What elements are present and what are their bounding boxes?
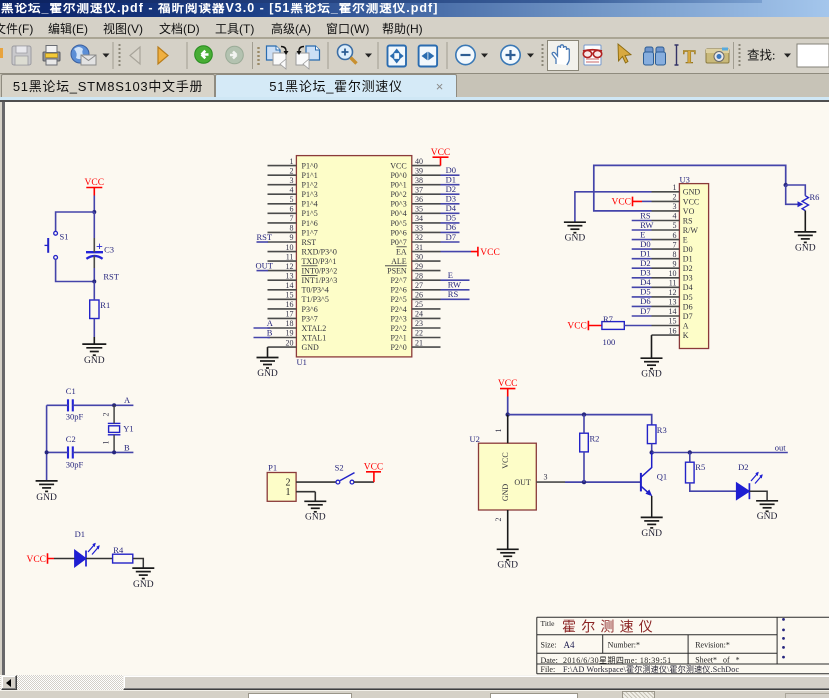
svg-text:Number:*: Number:* [608, 640, 640, 649]
pin 33 U1 (P0^6) [390, 224, 440, 238]
svg-text:Y1: Y1 [123, 424, 133, 434]
wire pin 20 to ground [267, 347, 269, 357]
svg-text:VCC: VCC [567, 322, 587, 332]
pin 11 U1 (TXD/P3^1) [268, 252, 337, 266]
svg-text:D2: D2 [683, 264, 693, 273]
svg-text:GND: GND [501, 484, 510, 502]
back disabled [158, 47, 168, 64]
menu bar [0, 17, 829, 37]
pin 22 U1 (P2^1) [390, 329, 440, 343]
wire C1 right to node A [73, 404, 134, 406]
wire net RW to U3 pin 5 [632, 220, 654, 230]
svg-text:VCC: VCC [683, 197, 699, 206]
pin 9 U1 (RST) [268, 233, 317, 247]
svg-text:P1^4: P1^4 [302, 200, 318, 209]
svg-text:D1: D1 [683, 255, 693, 264]
svg-text:27: 27 [415, 281, 423, 290]
svg-text:1: 1 [290, 157, 294, 166]
pin 6 U3 (E) [652, 231, 688, 245]
svg-text:31: 31 [415, 243, 423, 252]
svg-text:E: E [683, 236, 688, 245]
pin 12 U1 (INT0/P3^2) [268, 262, 338, 276]
svg-text:XTAL1: XTAL1 [302, 333, 327, 342]
svg-text:INT0/P3^2: INT0/P3^2 [302, 267, 338, 276]
svg-text:P1^5: P1^5 [302, 209, 318, 218]
wire net RW to pin 27 [441, 280, 470, 290]
wire net D7 to U3 pin 14 [632, 306, 652, 316]
email/globe icon [71, 45, 89, 63]
svg-text:Title: Title [541, 619, 556, 628]
lcd connector U3 body [679, 184, 708, 349]
pin 19 U1 (XTAL1) [268, 329, 327, 343]
text select tool [675, 45, 679, 65]
svg-text:39: 39 [415, 166, 423, 175]
wire A to Y1 / Y1 to B [113, 405, 115, 423]
svg-text:14: 14 [286, 281, 294, 290]
svg-text:C3: C3 [104, 245, 114, 255]
pin 4 U3 (RS) [652, 212, 693, 226]
svg-text:A4: A4 [564, 640, 575, 650]
wire junction to R6 wiper arrow [786, 185, 798, 204]
pin 3 U2 (OUT) [514, 472, 565, 487]
svg-text:26: 26 [415, 291, 423, 300]
svg-text:B: B [267, 327, 273, 337]
pin 1 U1 (P1^0) [268, 157, 318, 171]
wire S2 to VCC corner [354, 481, 374, 483]
svg-text:18: 18 [286, 319, 294, 328]
svg-text:10: 10 [286, 243, 294, 252]
hall sensor U2 body [479, 443, 537, 510]
svg-text:16: 16 [286, 300, 294, 309]
pin 13 U3 (D6) [652, 298, 693, 312]
zoom out [456, 45, 475, 64]
resistor R1 [90, 300, 99, 319]
svg-text:2: 2 [494, 518, 503, 522]
pin 2 U2 (GND) [494, 484, 510, 550]
pin 10 U3 (D3) [652, 269, 693, 283]
pin 11 U3 (D4) [652, 279, 693, 293]
pin 40 U1 (VCC) [390, 157, 440, 171]
svg-text:D3: D3 [683, 274, 693, 283]
pin 3 U1 (P1^2) [268, 176, 318, 190]
svg-text:24: 24 [415, 310, 423, 319]
wire VCC to D1 anode [54, 558, 75, 560]
node B junction [112, 450, 116, 454]
resistor R4 [113, 554, 133, 563]
wire left rail to GND [46, 405, 48, 481]
svg-text:查找:: 查找: [747, 49, 775, 63]
wire C2 right to node B [73, 451, 134, 453]
svg-text:out: out [775, 443, 787, 453]
crystal Y1 [108, 423, 121, 434]
pin 37 U1 (P0^2) [390, 185, 440, 199]
svg-text:P0^4: P0^4 [390, 209, 406, 218]
svg-text:15: 15 [669, 317, 677, 326]
capacitor C3 [86, 252, 103, 259]
svg-text:GND: GND [36, 493, 57, 503]
svg-text:GND: GND [641, 370, 662, 380]
svg-text:GND: GND [133, 580, 154, 590]
wire net D5 to U3 pin 12 [632, 287, 652, 297]
pin 13 U1 (INT1/P3^3) [268, 271, 338, 285]
svg-text:GND: GND [257, 369, 278, 379]
resistor R7 [602, 322, 624, 330]
pin 31 U1 (EA) [396, 243, 440, 257]
svg-text:RS: RS [640, 210, 651, 220]
svg-text:D1: D1 [75, 529, 85, 539]
svg-text:D4: D4 [640, 277, 651, 287]
wire net D1 to U3 pin 8 [632, 249, 652, 259]
pin 9 U3 (D2) [652, 259, 693, 273]
svg-text:P0^1: P0^1 [390, 181, 406, 190]
svg-text:R2: R2 [590, 434, 600, 444]
resistor R3 [647, 425, 656, 444]
wire D1 cathode to R4 [86, 558, 113, 560]
title block revision dots [782, 618, 785, 658]
pin 8 U1 (P1^7) [268, 224, 318, 238]
wire top rail to R3 [508, 415, 652, 425]
svg-text:8: 8 [290, 224, 294, 233]
svg-text:P2^5: P2^5 [390, 295, 406, 304]
wire net D4 to U3 pin 11 [632, 277, 652, 287]
wire R4 to GND [133, 559, 144, 569]
pin 5 U3 (R/W) [652, 221, 699, 235]
power port VCC (reset circuit) [85, 178, 105, 196]
svg-text:VCC: VCC [498, 379, 518, 389]
svg-text:30: 30 [415, 252, 423, 261]
svg-text:P1^7: P1^7 [302, 228, 318, 237]
node RST junction [92, 280, 96, 284]
mcu U1 body [296, 156, 411, 357]
svg-text:OUT: OUT [256, 260, 274, 270]
resistor R2 [580, 433, 589, 452]
pin 23 U1 (P2^2) [390, 319, 440, 333]
wire U2 OUT to Q1 base [565, 481, 641, 483]
ground (U3 pin 16) [641, 358, 663, 369]
svg-text:RW: RW [448, 280, 461, 290]
svg-text:16: 16 [669, 326, 677, 335]
svg-text:A: A [683, 321, 689, 330]
svg-text:D2: D2 [640, 258, 650, 268]
svg-text:Q1: Q1 [657, 472, 667, 482]
svg-text:14: 14 [669, 307, 677, 316]
wire P1 pin 1 to ground [314, 492, 316, 502]
capacitor C2 [68, 446, 73, 458]
prev view page [267, 46, 281, 60]
svg-text:D7: D7 [446, 232, 456, 242]
wire U3 pin 3 VO to R6 wiper [594, 165, 786, 211]
ground (U2 pin 2) [497, 549, 519, 560]
svg-text:P2^4: P2^4 [390, 305, 406, 314]
zoom lens [338, 45, 353, 60]
svg-text:11: 11 [286, 252, 294, 261]
svg-text:34: 34 [415, 214, 423, 223]
node junction VCC/S1/C3 [92, 210, 96, 214]
svg-text:ALE: ALE [391, 257, 407, 266]
node junction U2 pin1/rail [506, 412, 510, 416]
svg-text:R4: R4 [113, 545, 124, 555]
svg-text:F:\AD Workspace\霍尔测速仪\霍尔测速仪.Sc: F:\AD Workspace\霍尔测速仪\霍尔测速仪.SchDoc [563, 664, 739, 674]
pin 27 U1 (P2^6) [390, 281, 440, 295]
svg-text:P0^3: P0^3 [390, 200, 406, 209]
svg-text:2: 2 [673, 193, 677, 202]
wire net E to pin 28 [441, 270, 470, 280]
power port VCC (R7) [567, 321, 602, 332]
svg-text:Size:: Size: [541, 640, 557, 649]
svg-text:RS: RS [683, 216, 693, 225]
pin 16 U3 (K) [652, 326, 689, 340]
svg-text:RS: RS [448, 289, 459, 299]
power port VCC (U1 pin 40) [431, 148, 451, 166]
window title bar [0, 0, 829, 17]
svg-text:D2: D2 [446, 184, 456, 194]
svg-text:P1^2: P1^2 [302, 181, 318, 190]
pin 15 U1 (T1/P3^5) [268, 291, 329, 305]
svg-text:D5: D5 [446, 213, 456, 223]
node junction R5/out [688, 450, 692, 454]
node junction R6 wiper [784, 183, 788, 187]
pin 12 U3 (D5) [652, 288, 693, 302]
svg-text:GND: GND [795, 243, 816, 253]
wire rail to R2 / R2 to OUT [583, 415, 585, 434]
svg-text:GND: GND [497, 561, 518, 571]
wire net RST to pin 9 [257, 232, 273, 242]
svg-text:A: A [124, 395, 131, 405]
svg-text:7: 7 [290, 214, 294, 223]
pin 36 U1 (P0^3) [390, 195, 440, 209]
svg-text:XTAL2: XTAL2 [302, 324, 327, 333]
svg-text:T1/P3^5: T1/P3^5 [302, 295, 329, 304]
wire net D0 to pin 39 [441, 165, 460, 175]
ground (U3 pin 1) [564, 222, 586, 233]
svg-text:RST: RST [257, 232, 273, 242]
svg-text:10: 10 [669, 269, 677, 278]
svg-text:2: 2 [290, 166, 294, 175]
svg-text:R/W: R/W [683, 226, 699, 235]
svg-text:100: 100 [603, 337, 616, 347]
potentiometer R6 [798, 196, 809, 211]
zoom in [501, 45, 520, 64]
wire VCC port to U3 pin 2 [642, 200, 652, 202]
pin 17 U1 (P3^7) [268, 310, 318, 324]
ground (U1 pin 20) [257, 358, 279, 369]
svg-text:VCC: VCC [390, 162, 406, 171]
node junction collector/out [650, 450, 654, 454]
svg-text:VCC: VCC [85, 178, 105, 188]
wire VCC to rail junction [507, 397, 509, 415]
wire junction to C3 / C3 to RST node [93, 212, 95, 238]
svg-text:GND: GND [84, 356, 105, 366]
ground (R6) [794, 232, 816, 243]
pin 35 U1 (P0^4) [390, 205, 440, 219]
wire C2 left to rail [47, 451, 69, 453]
transistor Q1 [641, 453, 652, 518]
wire net D4 to pin 35 [441, 203, 460, 213]
svg-text:VCC: VCC [480, 248, 500, 258]
svg-text:28: 28 [415, 271, 423, 280]
svg-text:D5: D5 [683, 293, 693, 302]
pin 7 U3 (D0) [652, 240, 693, 254]
wire net D0 to U3 pin 7 [632, 239, 652, 249]
svg-text:P1^3: P1^3 [302, 190, 318, 199]
svg-text:15: 15 [286, 291, 294, 300]
ground (D1 circuit) [132, 568, 154, 579]
svg-text:E: E [448, 270, 453, 280]
svg-text:6: 6 [290, 205, 294, 214]
horizontal scrollbar [0, 675, 829, 690]
svg-text:P2^2: P2^2 [390, 324, 406, 333]
pin 29 U1 (PSEN) [385, 262, 441, 276]
pin 25 U1 (P2^4) [390, 300, 440, 314]
pin 7 U1 (P1^6) [268, 214, 318, 228]
svg-text:P2^0: P2^0 [390, 343, 406, 352]
tab bar [0, 74, 829, 97]
forward [186, 42, 188, 69]
svg-text:D2: D2 [738, 462, 748, 472]
svg-text:D4: D4 [683, 283, 693, 292]
svg-text:36: 36 [415, 195, 423, 204]
svg-text:37: 37 [415, 185, 423, 194]
switch S1 [45, 231, 58, 259]
svg-text:5: 5 [673, 221, 677, 230]
svg-text:T0/P3^4: T0/P3^4 [302, 286, 329, 295]
wire D2 cathode to ground [749, 491, 767, 501]
svg-text:6: 6 [673, 231, 677, 240]
arrow cursor [644, 47, 666, 65]
power port VCC (D1) [26, 553, 54, 565]
pin 30 U1 (ALE) [391, 252, 440, 266]
svg-text:P2^7: P2^7 [390, 276, 406, 285]
svg-text:P3^7: P3^7 [302, 314, 318, 323]
svg-text:5: 5 [290, 195, 294, 204]
wire U3 pin 16 to ground [651, 335, 653, 358]
wire net D5 to pin 34 [441, 213, 460, 223]
pin 5 U1 (P1^4) [268, 195, 318, 209]
wire net RS to pin 26 [441, 289, 470, 299]
wire net D6 to U3 pin 13 [632, 296, 652, 306]
svg-text:C1: C1 [66, 386, 76, 396]
svg-text:P2^6: P2^6 [390, 286, 406, 295]
svg-text:VCC: VCC [26, 555, 46, 565]
node A junction [112, 403, 116, 407]
pin 14 U1 (T0/P3^4) [268, 281, 329, 295]
wire net D1 to pin 38 [441, 175, 460, 185]
svg-text:File:: File: [541, 665, 556, 674]
connector P1 body [267, 473, 296, 502]
wire C1 left to rail [47, 404, 69, 406]
svg-text:D6: D6 [683, 302, 693, 311]
wire out line [652, 452, 788, 454]
svg-text:D7: D7 [683, 312, 693, 321]
svg-text:D3: D3 [446, 194, 456, 204]
wire net D6 to pin 33 [441, 222, 460, 232]
svg-text:D7: D7 [640, 306, 650, 316]
svg-text:D5: D5 [640, 287, 650, 297]
wire net OUT to pin 12 [256, 260, 274, 270]
svg-text:VCC: VCC [364, 463, 384, 473]
pin 32 U1 (P0^7) [390, 233, 440, 247]
svg-text:U2: U2 [470, 434, 480, 444]
svg-text:VCC: VCC [501, 452, 510, 468]
glasses icon [584, 45, 601, 65]
svg-text:RST: RST [103, 271, 119, 281]
svg-text:D1: D1 [446, 175, 456, 185]
svg-text:GND: GND [641, 529, 662, 539]
svg-text:PSEN: PSEN [387, 267, 407, 276]
pin 2 U3 (VCC) [652, 193, 700, 207]
wire net B to pin 19 [254, 327, 273, 337]
toolbar [0, 39, 829, 74]
wire net E to U3 pin 6 [632, 229, 652, 239]
wire junction to S1 top [56, 212, 95, 231]
pin 2 P1 [286, 477, 337, 488]
svg-text:12: 12 [669, 288, 677, 297]
svg-text:P3^6: P3^6 [302, 305, 318, 314]
pin 18 U1 (XTAL2) [268, 319, 327, 333]
wire R7 to U3 pin 15 [624, 325, 651, 327]
svg-text:S1: S1 [60, 232, 69, 242]
pin 28 U1 (P2^7) [390, 271, 440, 285]
svg-text:A: A [267, 318, 274, 328]
pin 24 U1 (P2^3) [390, 310, 440, 324]
svg-text:R5: R5 [695, 462, 705, 472]
svg-text:4: 4 [673, 212, 677, 221]
svg-text:T: T [683, 47, 696, 68]
wire VCC to junction [93, 196, 95, 213]
wire U3 pin 1 to ground [575, 192, 652, 222]
pin 16 U1 (P3^6) [268, 300, 318, 314]
pin 14 U3 (D7) [652, 307, 693, 321]
pin 6 U1 (P1^5) [268, 205, 318, 219]
svg-text:19: 19 [286, 329, 294, 338]
fit width [419, 46, 438, 67]
svg-text:P1^0: P1^0 [302, 162, 318, 171]
wire net A to pin 18 [254, 318, 274, 328]
svg-text:21: 21 [415, 338, 423, 347]
svg-text:OUT: OUT [514, 478, 531, 487]
svg-text:2: 2 [102, 413, 111, 417]
svg-text:D6: D6 [446, 222, 456, 232]
ground (reset circuit) [82, 344, 106, 355]
wire R3 to collector node [651, 444, 653, 453]
svg-text:P0^2: P0^2 [390, 190, 406, 199]
svg-text:11: 11 [669, 279, 677, 288]
pin 1 U3 (GND) [652, 183, 701, 197]
wire net D7 to pin 32 [441, 232, 460, 242]
green back [195, 46, 213, 64]
svg-text:D0: D0 [640, 239, 650, 249]
svg-text:P0^7: P0^7 [390, 238, 406, 247]
svg-text:8: 8 [673, 250, 677, 259]
wire net RS to U3 pin 4 [632, 210, 652, 220]
wire RST node to R1 / R1 to GND [93, 282, 95, 301]
power port VCC (hall circuit) [498, 379, 518, 396]
svg-text:GND: GND [683, 188, 701, 197]
ground (crystal circuit) [36, 481, 58, 492]
save icon [12, 46, 31, 65]
power port VCC (S2) [364, 463, 384, 483]
svg-text:2016/6/30星期四me: 18:39:51: 2016/6/30星期四me: 18:39:51 [563, 656, 672, 665]
svg-text:霍尔测速仪: 霍尔测速仪 [562, 620, 658, 636]
ground (Q1 emitter) [641, 517, 663, 528]
svg-text:32: 32 [415, 233, 423, 242]
pin 34 U1 (P0^5) [390, 214, 440, 228]
svg-text:P0^6: P0^6 [390, 228, 406, 237]
pin 8 U3 (D1) [652, 250, 693, 264]
svg-text:30pF: 30pF [66, 459, 84, 469]
wire net D2 to pin 37 [441, 184, 460, 194]
svg-text:7: 7 [673, 240, 677, 249]
